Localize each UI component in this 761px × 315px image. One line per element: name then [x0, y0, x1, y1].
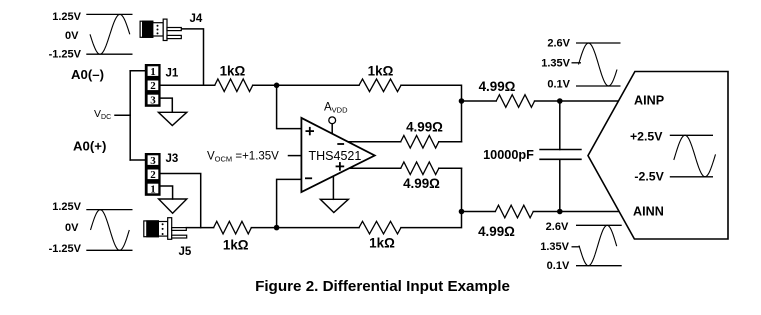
svg-text:J5: J5: [179, 246, 192, 258]
svg-text:1.25V: 1.25V: [52, 11, 81, 23]
svg-text:AINN: AINN: [633, 205, 664, 219]
svg-text:10000pF: 10000pF: [483, 148, 534, 162]
svg-text:J4: J4: [190, 13, 203, 25]
svg-text:4.99Ω: 4.99Ω: [478, 224, 515, 239]
svg-text:1: 1: [150, 66, 156, 78]
svg-text:A0(–): A0(–): [71, 67, 104, 82]
svg-text:0V: 0V: [65, 222, 79, 234]
svg-text:1.35V: 1.35V: [540, 241, 569, 253]
svg-text:2: 2: [150, 169, 156, 181]
svg-text:1kΩ: 1kΩ: [223, 238, 249, 253]
svg-text:0.1V: 0.1V: [547, 79, 570, 91]
svg-text:-1.25V: -1.25V: [49, 243, 82, 255]
svg-text:2.6V: 2.6V: [546, 221, 569, 233]
svg-text:1.25V: 1.25V: [52, 201, 81, 213]
svg-text:1.35V: 1.35V: [541, 58, 570, 70]
svg-text:-2.5V: -2.5V: [634, 170, 664, 184]
svg-text:AINP: AINP: [634, 94, 664, 108]
svg-text:J1: J1: [166, 68, 179, 80]
svg-text:3: 3: [150, 155, 156, 167]
svg-text:Figure 2. Differential Input E: Figure 2. Differential Input Example: [255, 278, 510, 295]
svg-text:4.99Ω: 4.99Ω: [403, 176, 440, 191]
svg-text:4.99Ω: 4.99Ω: [479, 79, 516, 94]
svg-text:A0(+): A0(+): [73, 139, 106, 154]
svg-text:THS4521: THS4521: [309, 149, 362, 163]
svg-text:1: 1: [150, 183, 156, 195]
svg-text:-1.25V: -1.25V: [49, 49, 82, 61]
svg-text:4.99Ω: 4.99Ω: [406, 120, 443, 135]
svg-text:1kΩ: 1kΩ: [369, 236, 395, 251]
svg-text:2: 2: [150, 80, 156, 92]
svg-text:1kΩ: 1kΩ: [368, 63, 394, 78]
svg-text:J3: J3: [166, 153, 179, 165]
svg-text:1kΩ: 1kΩ: [220, 63, 246, 78]
svg-text:0V: 0V: [65, 30, 79, 42]
svg-text:2.6V: 2.6V: [547, 38, 570, 50]
svg-text:3: 3: [150, 94, 156, 106]
svg-text:0.1V: 0.1V: [547, 260, 570, 272]
svg-text:+2.5V: +2.5V: [630, 130, 663, 144]
